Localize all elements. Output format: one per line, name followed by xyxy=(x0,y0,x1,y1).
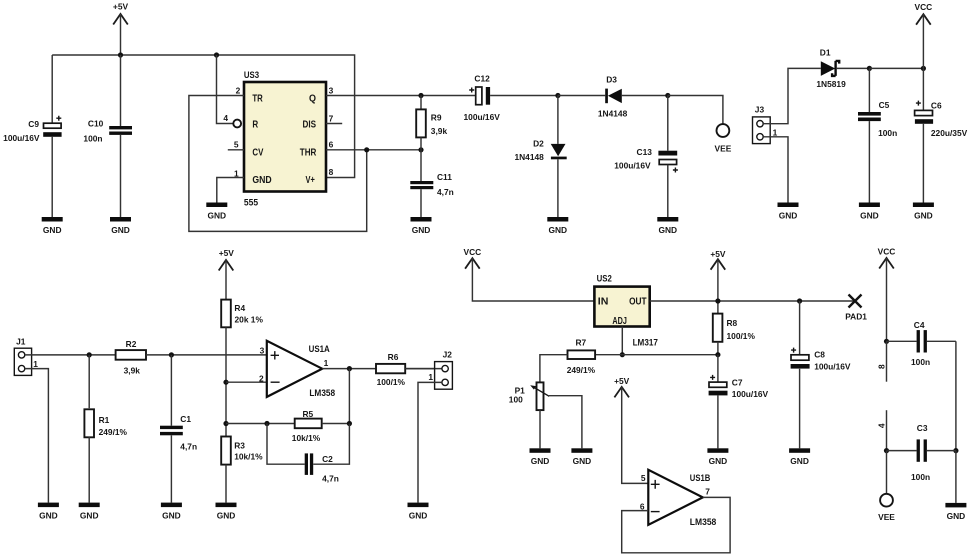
ground P1 xyxy=(530,448,551,466)
ground C7 xyxy=(707,448,728,466)
wire VCC down xyxy=(922,14,924,68)
svg-text:20k 1%: 20k 1% xyxy=(235,315,264,325)
wire J2 pin1 to gnd xyxy=(418,382,442,502)
svg-text:249/1%: 249/1% xyxy=(99,427,128,437)
ground J3 xyxy=(778,203,799,221)
node C8 top xyxy=(797,298,802,303)
svg-text:OUT: OUT xyxy=(629,297,647,308)
capacitor C13 xyxy=(614,96,678,218)
wire top bus xyxy=(52,55,354,178)
svg-text:100u/16V: 100u/16V xyxy=(3,133,40,143)
svg-text:100u/16V: 100u/16V xyxy=(614,161,651,171)
svg-text:10k/1%: 10k/1% xyxy=(292,433,321,443)
supply VCC right xyxy=(878,247,896,269)
svg-text:US1B: US1B xyxy=(690,473,711,484)
wire output xyxy=(322,368,434,370)
wire Q output xyxy=(326,95,476,97)
ground C9 xyxy=(42,217,63,235)
svg-text:100u/16V: 100u/16V xyxy=(464,112,501,122)
svg-text:C10: C10 xyxy=(88,119,104,129)
svg-text:1N4148: 1N4148 xyxy=(598,109,628,119)
wire VCC to US2 IN xyxy=(472,258,594,301)
capacitor C9 xyxy=(3,55,61,217)
svg-text:J3: J3 xyxy=(755,104,765,114)
capacitor C5 xyxy=(858,68,897,202)
svg-text:+5V: +5V xyxy=(710,249,726,259)
svg-text:100u/16V: 100u/16V xyxy=(814,362,851,372)
capacitor C10 xyxy=(83,55,132,217)
svg-text:C13: C13 xyxy=(637,147,653,157)
wire CV stub xyxy=(228,149,244,151)
ground C10 xyxy=(110,217,131,235)
svg-text:+5V: +5V xyxy=(219,248,235,258)
svg-text:VCC: VCC xyxy=(464,247,482,257)
svg-text:5: 5 xyxy=(641,473,646,483)
pin 4 R inversion circle xyxy=(233,120,241,128)
svg-text:GND: GND xyxy=(252,175,271,186)
svg-text:R7: R7 xyxy=(576,337,587,347)
node C5 xyxy=(867,66,872,71)
resistor R4 xyxy=(221,300,263,437)
wire D1 to VCC line xyxy=(869,67,923,69)
svg-text:US1A: US1A xyxy=(309,344,330,355)
ground C5 xyxy=(859,203,880,221)
node R9-C11 xyxy=(418,147,423,152)
node C3 right xyxy=(953,448,958,453)
node C2 right xyxy=(347,421,352,426)
wire +5V to bus xyxy=(120,14,122,55)
resistor R2 xyxy=(116,339,267,376)
svg-text:100: 100 xyxy=(509,395,523,405)
svg-text:1: 1 xyxy=(324,358,329,368)
wire feedback down xyxy=(348,369,350,424)
wire ADJ to R8 xyxy=(595,354,718,356)
IC US3 555 xyxy=(244,70,326,208)
node R8 bottom xyxy=(715,352,720,357)
svg-text:TR: TR xyxy=(252,93,262,104)
svg-text:2: 2 xyxy=(236,86,241,96)
wire TR feedback loop xyxy=(189,96,367,232)
svg-text:R2: R2 xyxy=(126,339,137,349)
svg-text:4,7n: 4,7n xyxy=(322,474,339,484)
svg-text:C2: C2 xyxy=(322,454,333,464)
ground J1 xyxy=(38,503,59,521)
node R8 top xyxy=(715,298,720,303)
svg-text:1: 1 xyxy=(33,359,38,369)
svg-text:100n: 100n xyxy=(911,472,930,482)
svg-text:R6: R6 xyxy=(388,352,399,362)
wire R5 net xyxy=(226,423,295,425)
svg-text:2: 2 xyxy=(259,373,264,383)
svg-text:C7: C7 xyxy=(732,378,743,388)
svg-text:1N4148: 1N4148 xyxy=(514,152,544,162)
wire THR xyxy=(326,149,421,151)
capacitor C2 xyxy=(267,424,349,484)
node C1 xyxy=(169,352,174,357)
wire minus input xyxy=(226,381,267,383)
resistor R9 xyxy=(416,96,447,150)
node C4 left xyxy=(884,339,889,344)
svg-text:10k/1%: 10k/1% xyxy=(234,452,263,462)
svg-text:Q: Q xyxy=(309,93,316,104)
svg-text:8: 8 xyxy=(877,364,887,369)
wire DIS stub xyxy=(326,123,342,125)
svg-text:C9: C9 xyxy=(28,119,39,129)
op-amp US1A xyxy=(259,341,336,399)
ground C6 xyxy=(913,203,934,221)
svg-text:C5: C5 xyxy=(879,100,890,110)
svg-text:7: 7 xyxy=(705,486,710,496)
pin 8 stub xyxy=(886,341,888,381)
svg-text:3,9k: 3,9k xyxy=(431,126,448,136)
ground P1 wiper xyxy=(571,448,592,466)
resistor R7 xyxy=(540,337,596,382)
pad PAD1 xyxy=(845,295,867,322)
svg-text:249/1%: 249/1% xyxy=(567,365,596,375)
ground C13 xyxy=(657,217,678,235)
svg-text:THR: THR xyxy=(300,147,317,158)
diode D2 xyxy=(514,96,566,218)
node output feedback xyxy=(347,366,352,371)
resistor R6 xyxy=(376,352,442,387)
svg-text:+5V: +5V xyxy=(113,2,129,12)
wire R pin net xyxy=(217,55,234,124)
svg-text:R5: R5 xyxy=(302,409,313,419)
node R3 top xyxy=(223,421,228,426)
diode D3 xyxy=(598,75,668,119)
ground R3 xyxy=(216,503,237,521)
resistor R1 xyxy=(84,355,127,503)
svg-text:C8: C8 xyxy=(814,350,825,360)
svg-text:C1: C1 xyxy=(180,414,191,424)
svg-text:D2: D2 xyxy=(533,138,544,148)
svg-text:6: 6 xyxy=(640,501,645,511)
supply +5V R8 xyxy=(710,249,726,270)
svg-text:4,7n: 4,7n xyxy=(437,187,454,197)
svg-text:R1: R1 xyxy=(99,415,110,425)
terminal VEE xyxy=(715,124,732,153)
svg-text:R3: R3 xyxy=(234,441,245,451)
wire C4 to C3 right side xyxy=(955,341,957,450)
svg-text:DIS: DIS xyxy=(303,119,317,130)
svg-text:J1: J1 xyxy=(16,336,26,346)
svg-text:8: 8 xyxy=(329,167,334,177)
svg-text:4,7n: 4,7n xyxy=(180,441,197,451)
svg-text:1N5819: 1N5819 xyxy=(816,79,846,89)
supply VCC top right xyxy=(915,2,933,25)
node C2 left xyxy=(264,421,269,426)
pin 4 stub xyxy=(886,410,888,450)
svg-text:LM358: LM358 xyxy=(690,517,717,528)
wire J1 pin1 to gnd xyxy=(25,369,49,503)
wire C3 right to gnd xyxy=(955,451,957,503)
svg-text:R9: R9 xyxy=(431,113,442,123)
wire J3 pin1 to gnd xyxy=(763,137,788,203)
wire pin6 feedback xyxy=(622,497,730,552)
node C3 left xyxy=(884,448,889,453)
ground R1 xyxy=(79,503,100,521)
svg-text:4: 4 xyxy=(877,423,887,428)
ground C1 xyxy=(161,503,182,521)
capacitor C1 xyxy=(160,355,197,503)
svg-text:100n: 100n xyxy=(911,357,930,367)
svg-text:100/1%: 100/1% xyxy=(727,331,756,341)
diode D1 1N5819 xyxy=(816,48,869,89)
svg-text:R: R xyxy=(252,119,258,130)
ground C11 xyxy=(411,217,432,235)
node C6 xyxy=(921,66,926,71)
wire +5V R8 xyxy=(717,259,719,313)
svg-text:+5V: +5V xyxy=(614,376,630,386)
node bus-R4 xyxy=(214,52,219,57)
supply +5V R4 xyxy=(219,248,235,270)
wire J3 pin2 to D1 xyxy=(763,68,821,123)
node Q-R9 xyxy=(418,93,423,98)
capacitor C12 xyxy=(464,73,558,122)
resistor R3 xyxy=(221,437,263,503)
svg-text:VEE: VEE xyxy=(878,512,895,522)
svg-text:US2: US2 xyxy=(597,274,612,285)
svg-text:220u/35V: 220u/35V xyxy=(931,128,968,138)
svg-text:ADJ: ADJ xyxy=(612,316,627,327)
svg-text:D3: D3 xyxy=(606,75,617,85)
svg-text:C3: C3 xyxy=(917,423,928,433)
capacitor C3 xyxy=(887,423,956,482)
wire +5V to R4 xyxy=(225,260,227,300)
capacitor C7 xyxy=(709,355,769,449)
svg-text:C4: C4 xyxy=(914,320,925,330)
terminal VEE bottom xyxy=(878,494,895,522)
capacitor C8 xyxy=(791,301,851,448)
svg-text:1: 1 xyxy=(428,372,433,382)
svg-text:D1: D1 xyxy=(820,48,831,58)
ground right xyxy=(945,503,966,521)
svg-text:US3: US3 xyxy=(244,70,259,81)
wire D2 to D3 xyxy=(558,95,605,97)
wire to VEE terminal xyxy=(668,96,723,125)
svg-text:R4: R4 xyxy=(234,303,245,313)
wire GND pin xyxy=(217,178,244,203)
svg-text:J2: J2 xyxy=(443,350,453,360)
connector J1 xyxy=(14,336,38,375)
wire to VEE xyxy=(886,451,888,494)
svg-text:1: 1 xyxy=(773,127,778,137)
svg-text:4: 4 xyxy=(223,113,228,123)
resistor R8 xyxy=(713,314,756,355)
svg-text:PAD1: PAD1 xyxy=(845,311,867,321)
svg-text:IN: IN xyxy=(598,297,609,308)
svg-text:555: 555 xyxy=(244,198,259,209)
op-amp US1B xyxy=(640,470,717,528)
node minus input xyxy=(223,380,228,385)
svg-text:6: 6 xyxy=(329,139,334,149)
ground US3 xyxy=(206,203,227,221)
node ADJ xyxy=(620,352,625,357)
svg-text:3: 3 xyxy=(329,86,334,96)
svg-text:100n: 100n xyxy=(83,133,102,143)
ground D2 xyxy=(547,217,568,235)
wire +5V to pin5 xyxy=(622,387,649,484)
node C13 xyxy=(665,93,670,98)
capacitor C4 xyxy=(887,320,956,367)
svg-text:LM317: LM317 xyxy=(633,337,658,348)
ground C8 xyxy=(789,448,810,466)
svg-text:5: 5 xyxy=(234,139,239,149)
supply VCC mid xyxy=(464,247,482,269)
svg-text:3: 3 xyxy=(260,346,265,356)
svg-text:C6: C6 xyxy=(931,101,942,111)
node THR-loop xyxy=(364,147,369,152)
wire ADJ pin xyxy=(621,327,623,355)
svg-text:CV: CV xyxy=(252,147,263,158)
potentiometer P1 xyxy=(509,382,582,448)
svg-text:100u/16V: 100u/16V xyxy=(732,389,769,399)
svg-text:LM358: LM358 xyxy=(309,388,335,399)
supply +5V top xyxy=(113,2,129,25)
node bus-C10 xyxy=(118,52,123,57)
svg-text:C12: C12 xyxy=(474,73,490,83)
capacitor C11 xyxy=(410,150,453,217)
svg-text:C11: C11 xyxy=(437,172,452,182)
svg-text:3,9k: 3,9k xyxy=(124,366,141,376)
node R1 xyxy=(87,352,92,357)
capacitor C6 xyxy=(915,68,968,202)
wire input rail left xyxy=(25,354,116,356)
supply +5V US1B xyxy=(614,376,630,398)
wire VCC down xyxy=(886,258,888,341)
connector J3 xyxy=(753,104,778,143)
IC US2 LM317 xyxy=(594,274,657,349)
node D2 xyxy=(555,93,560,98)
svg-text:VCC: VCC xyxy=(915,2,933,12)
svg-text:100/1%: 100/1% xyxy=(377,377,406,387)
connector J2 xyxy=(428,350,452,390)
wire OUT rail xyxy=(650,300,855,302)
svg-text:R8: R8 xyxy=(727,318,738,328)
svg-text:100n: 100n xyxy=(878,128,897,138)
ground J2 xyxy=(408,503,429,521)
resistor R5 xyxy=(292,409,350,443)
svg-text:VEE: VEE xyxy=(715,143,732,153)
svg-text:VCC: VCC xyxy=(878,247,896,257)
svg-text:V+: V+ xyxy=(306,175,316,186)
svg-text:7: 7 xyxy=(329,113,334,123)
